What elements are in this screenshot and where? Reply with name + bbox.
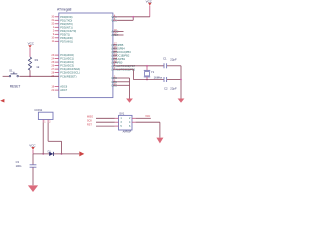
svg-text:VCC: VCC — [145, 115, 150, 118]
svg-text:MISO: MISO — [87, 116, 93, 119]
svg-text:SCK: SCK — [87, 119, 92, 122]
svg-text:PC1(ADC1): PC1(ADC1) — [60, 57, 74, 61]
svg-text:GND: GND — [111, 83, 117, 87]
svg-text:VCC: VCC — [28, 42, 35, 46]
svg-text:RST: RST — [87, 123, 92, 126]
svg-text:CON1: CON1 — [34, 108, 42, 112]
svg-text:ATmega8: ATmega8 — [57, 7, 72, 11]
svg-text:22pF: 22pF — [170, 57, 177, 61]
svg-text:C1: C1 — [163, 56, 167, 60]
svg-text:22pF: 22pF — [170, 87, 177, 91]
svg-text:VCC: VCC — [111, 18, 117, 22]
svg-text:PC3(ADC3): PC3(ADC3) — [60, 64, 74, 68]
svg-text:PC5(ADC5/SCL): PC5(ADC5/SCL) — [60, 71, 80, 75]
svg-text:PD2(INT0): PD2(INT0) — [60, 22, 73, 26]
svg-text:SV1: SV1 — [119, 111, 125, 115]
svg-text:PC6(/RESET): PC6(/RESET) — [60, 74, 76, 78]
svg-text:PD0(RXD): PD0(RXD) — [60, 15, 72, 19]
svg-text:RESET: RESET — [10, 84, 21, 88]
svg-text:16Mhz: 16Mhz — [154, 76, 163, 80]
svg-text:PC0(ADC0): PC0(ADC0) — [60, 53, 74, 57]
svg-text:PC4(ADC4/SDA): PC4(ADC4/SDA) — [60, 67, 80, 71]
svg-text:PC2(ADC2): PC2(ADC2) — [60, 60, 74, 64]
svg-text:PD7(AIN1): PD7(AIN1) — [60, 39, 73, 43]
svg-text:C2: C2 — [164, 87, 168, 91]
svg-text:R1: R1 — [35, 58, 39, 62]
svg-text:ADC6: ADC6 — [60, 85, 67, 89]
svg-text:C3: C3 — [16, 160, 20, 164]
svg-text:S1: S1 — [9, 68, 13, 72]
svg-text:Y1: Y1 — [151, 70, 155, 74]
svg-text:PD3(INT1): PD3(INT1) — [60, 25, 73, 29]
svg-text:PD4(XCK/T0): PD4(XCK/T0) — [60, 29, 76, 33]
svg-text:VCC: VCC — [29, 143, 36, 147]
svg-text:PD1(TXD): PD1(TXD) — [60, 18, 72, 22]
svg-text:PD6(AIN0): PD6(AIN0) — [60, 36, 73, 40]
svg-text:ADC7: ADC7 — [60, 88, 67, 92]
svg-text:PD5(T1): PD5(T1) — [60, 32, 70, 36]
svg-text:100n: 100n — [16, 164, 22, 168]
svg-text:AVRISP: AVRISP — [123, 131, 132, 134]
